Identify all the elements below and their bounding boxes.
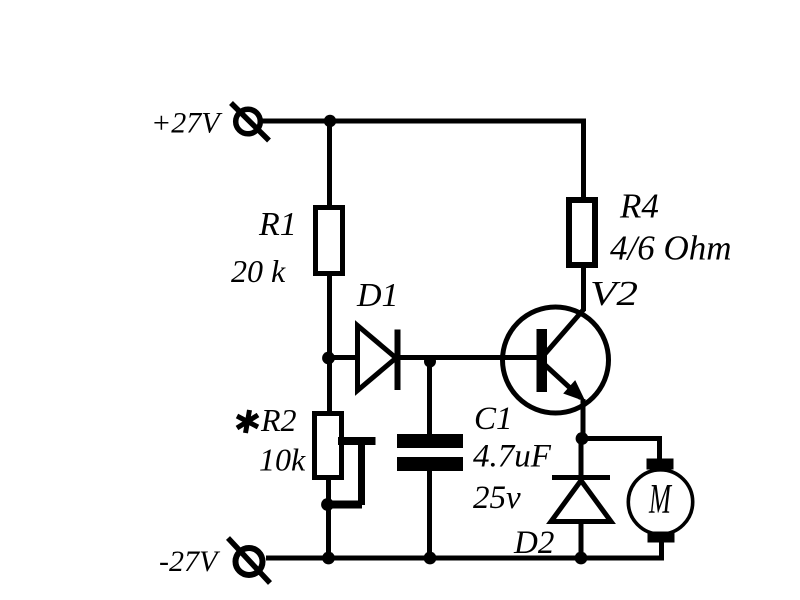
svg-text:4.7uF: 4.7uF — [473, 439, 552, 475]
svg-text:4/6 Ohm: 4/6 Ohm — [610, 229, 732, 268]
svg-text:20 k: 20 k — [231, 253, 286, 289]
svg-text:-27V: -27V — [159, 545, 221, 578]
svg-text:R1: R1 — [258, 206, 297, 243]
svg-text:D1: D1 — [356, 277, 399, 314]
svg-text:10k: 10k — [259, 442, 306, 478]
svg-text:R4: R4 — [619, 187, 659, 226]
svg-text:25v: 25v — [473, 480, 521, 516]
svg-text:D2: D2 — [513, 525, 554, 561]
svg-text:V2: V2 — [590, 274, 638, 313]
svg-text:R2: R2 — [260, 402, 297, 438]
svg-text:+27V: +27V — [151, 107, 223, 140]
svg-text:C1: C1 — [474, 401, 513, 437]
svg-text:M: M — [648, 477, 672, 523]
